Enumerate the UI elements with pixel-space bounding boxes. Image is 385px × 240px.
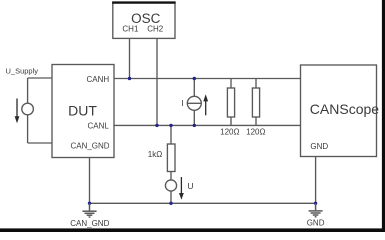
svg-text:GND: GND [307, 219, 325, 228]
svg-text:CANH: CANH [87, 75, 110, 84]
svg-text:CAN_GND: CAN_GND [70, 142, 109, 151]
svg-text:1kΩ: 1kΩ [148, 150, 162, 159]
svg-text:CAN_GND: CAN_GND [70, 219, 109, 228]
svg-text:CH2: CH2 [147, 24, 164, 33]
svg-text:120Ω: 120Ω [246, 127, 265, 136]
svg-text:DUT: DUT [68, 102, 97, 118]
svg-text:CH1: CH1 [122, 24, 139, 33]
svg-text:U_Supply: U_Supply [6, 67, 39, 76]
svg-text:I: I [181, 98, 183, 108]
svg-text:CANL: CANL [87, 122, 109, 131]
svg-text:CANScope: CANScope [310, 101, 379, 117]
svg-text:GND: GND [310, 142, 328, 151]
svg-text:120Ω: 120Ω [220, 127, 239, 136]
svg-text:U: U [187, 181, 193, 191]
